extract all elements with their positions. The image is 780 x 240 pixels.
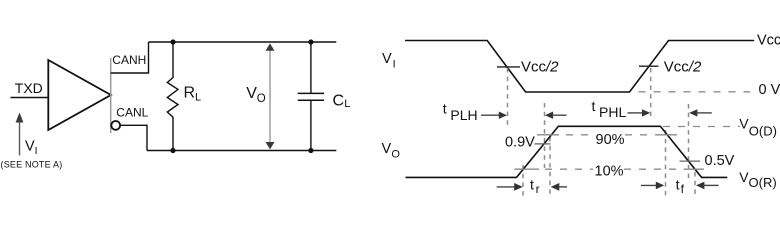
arrow tr right left-pointing (551, 183, 560, 191)
wire TXD input (11, 97, 49, 99)
svg-text:L: L (344, 98, 350, 110)
wire top rail (149, 41, 337, 43)
dashed vertical tPHL left (650, 68, 652, 117)
VO(D) dashed level line (663, 126, 740, 128)
svg-text:V: V (25, 139, 35, 155)
VI waveform (405, 41, 754, 93)
svg-text:0.5V: 0.5V (705, 153, 735, 169)
10% dashed left of text (545, 168, 593, 170)
VO waveform (406, 126, 728, 177)
svg-text:C: C (333, 93, 345, 110)
node junction dot CL top (308, 39, 313, 44)
tick 0.9V (535, 143, 551, 145)
dashed vertical tf left (665, 130, 667, 197)
wire device pin bus (gray vertical) (110, 58, 112, 133)
90% dashed right of text (625, 134, 657, 136)
svg-text:r: r (536, 182, 540, 196)
svg-text:TXD: TXD (15, 80, 43, 96)
svg-text:0 V: 0 V (759, 82, 780, 98)
svg-text:CANH: CANH (112, 53, 146, 67)
svg-text:L: L (195, 91, 201, 103)
svg-text:10%: 10% (595, 164, 624, 180)
svg-text:t: t (530, 177, 534, 193)
10% dashed right of text (624, 168, 683, 170)
svg-text:0.9V: 0.9V (505, 134, 535, 150)
wire CANL (120, 125, 147, 150)
svg-text:PHL: PHL (599, 104, 626, 120)
dashed vertical tr right (549, 137, 551, 196)
node junction dot RL bottom (170, 148, 175, 153)
svg-text:Vcc: Vcc (757, 33, 780, 49)
dashed vertical tPHL right (0.5V crossing) (688, 104, 690, 181)
svg-text:t: t (676, 177, 680, 193)
node junction dot CL bottom (308, 148, 313, 153)
dashed vertical tr left (522, 165, 524, 196)
VO measurement arrow (269, 48, 271, 145)
node junction dot RL top (170, 39, 175, 44)
10% level: tick across rising edge (515, 168, 540, 170)
svg-text:R: R (184, 84, 196, 101)
resistor RL (167, 42, 178, 151)
wire CANH (111, 42, 149, 73)
dashed vertical tf right (694, 172, 696, 198)
arrow tr left right-pointing (497, 186, 516, 188)
svg-text:O: O (257, 93, 266, 105)
svg-text:Vcc/2: Vcc/2 (664, 59, 702, 76)
arrow tPLH right-pointing (481, 114, 501, 116)
svg-text:V: V (382, 141, 392, 157)
tick Vcc/2 falling (497, 66, 520, 68)
90% tick across falling edge (657, 134, 677, 136)
svg-text:90%: 90% (596, 132, 625, 148)
dashed vertical tPLH left (507, 68, 509, 126)
inverting bubble on CANL (111, 121, 120, 130)
arrow tPHL counter left-pointing (689, 109, 697, 116)
VI input arrow (19, 119, 21, 156)
svg-text:CANL: CANL (116, 106, 148, 120)
arrow tf left right-pointing (641, 184, 658, 186)
svg-text:V: V (246, 85, 257, 102)
svg-text:V: V (382, 51, 392, 67)
dashed vertical tPLH right (0.9V crossing) (544, 103, 546, 168)
arrow tPHL right-pointing (628, 112, 644, 114)
svg-text:V: V (739, 116, 749, 132)
svg-text:PLH: PLH (450, 107, 477, 123)
svg-text:t: t (443, 101, 447, 117)
90% level: tick across rising edge (537, 134, 559, 136)
wire bottom rail (147, 150, 336, 152)
svg-text:I: I (393, 59, 396, 71)
90% dashed left of text (566, 134, 594, 136)
capacitor CL (310, 42, 312, 93)
op-amp driver triangle (48, 60, 111, 130)
svg-text:O(D): O(D) (749, 123, 777, 138)
svg-text:(SEE NOTE A): (SEE NOTE A) (1, 160, 63, 170)
arrow tPLH counter left-pointing (545, 112, 553, 119)
svg-text:O: O (391, 149, 400, 161)
svg-text:I: I (35, 145, 38, 157)
10% tick across falling edge (684, 168, 704, 170)
svg-text:O(R): O(R) (749, 175, 777, 190)
tick 0.5V (680, 160, 701, 162)
tick Vcc/2 rising (639, 65, 659, 67)
svg-text:Vcc/2: Vcc/2 (521, 59, 559, 76)
0V dashed level line (639, 91, 751, 93)
svg-text:t: t (592, 98, 596, 114)
arrow tf right left-pointing (696, 182, 704, 190)
